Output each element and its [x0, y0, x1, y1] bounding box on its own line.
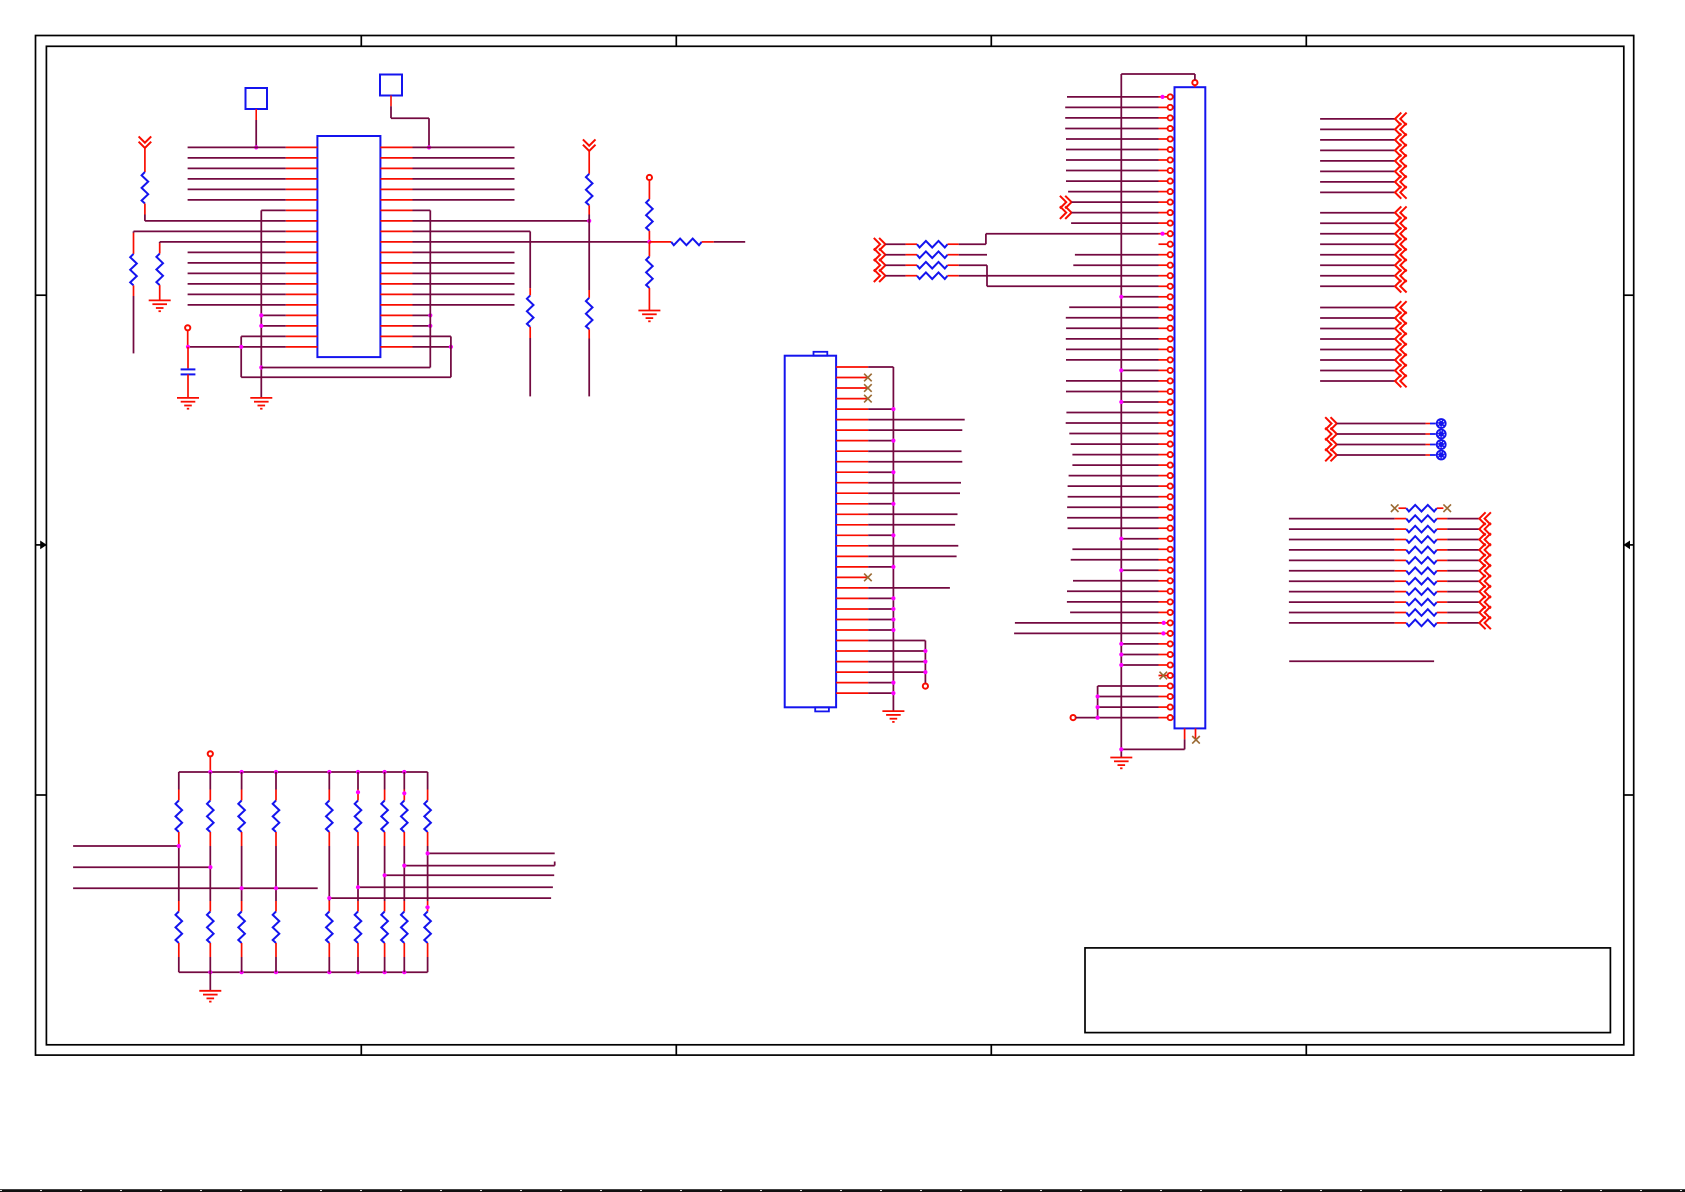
J5 rows50-51 long wires: [1015, 622, 1159, 624]
array right wire 1: [428, 852, 555, 854]
frame zone ticks left: [36, 294, 47, 296]
J5 rows57-58 wires: [1098, 696, 1159, 698]
J4 pins: [836, 366, 868, 368]
resistor R5 upper: [588, 151, 590, 174]
array column 9 resistors: [427, 772, 429, 790]
U1 right wire row7 to R5: [413, 220, 590, 222]
resistor R2: [133, 231, 135, 233]
row18 loop bottom: [241, 376, 451, 378]
power chevron R1: [139, 136, 152, 148]
array terminal circle: [208, 751, 213, 756]
U1 right wires rows0-5: [413, 146, 515, 148]
J5 row15 pin wire: [1075, 254, 1159, 256]
J4 row26 wire to stub bus: [868, 640, 925, 642]
chevron resistor row16: [874, 259, 886, 272]
U1 right wire row18: [413, 335, 451, 337]
next page edge strip: [0, 1189, 1685, 1192]
resistor row X-X: [1391, 504, 1399, 512]
frame zone ticks top: [360, 36, 362, 47]
array column 5 resistors: [328, 772, 330, 790]
U1 left wires rows10-15: [188, 251, 286, 253]
J5 rows56-59 vertical: [1097, 686, 1099, 718]
U1 left wire row9 from R3: [160, 241, 286, 243]
series resistor row 10: [1289, 612, 1395, 614]
series resistor row 6: [1289, 570, 1395, 572]
J4 long wires: [868, 419, 965, 421]
single wire below resistor block: [1289, 660, 1434, 662]
left ground bus vertical: [260, 210, 262, 398]
J5 bus junction rows: [1121, 296, 1158, 298]
ground R6: [638, 310, 660, 312]
series resistor row 3: [1289, 539, 1395, 541]
row16 to row18 vertical: [986, 265, 988, 286]
junction row0 left: [254, 145, 258, 149]
series resistor row 8: [1289, 591, 1395, 593]
IC U1 body: [317, 136, 380, 357]
U1 right wire row6 to bus: [413, 209, 431, 211]
array right wire 4: [358, 886, 553, 888]
row18 loop right vertical: [450, 336, 452, 377]
J5 row56 wire: [1098, 685, 1159, 687]
series resistor row 11: [1289, 622, 1395, 624]
test point wires with chevrons: [1325, 417, 1337, 430]
U1 left wire row18: [241, 335, 286, 337]
array column 2 resistors: [209, 772, 211, 790]
resistor R6 lower: [648, 242, 650, 257]
series resistor row 5: [1289, 559, 1395, 561]
series resistor row 9: [1289, 601, 1395, 603]
J4 circle terminal: [924, 682, 926, 684]
chevron resistor row15: [874, 248, 886, 261]
J4 ground: [882, 710, 904, 712]
connector J4 top tab: [814, 352, 828, 356]
U1 right wire row19: [413, 346, 451, 348]
title block: [1085, 948, 1610, 1033]
ground C1: [177, 397, 199, 399]
J4 bus junction rows: [868, 408, 893, 410]
terminal circle R6: [647, 175, 652, 180]
U1 left pins: [286, 146, 318, 148]
J5 left wires: [1067, 96, 1159, 98]
U1 right wire row8 to R4: [413, 230, 531, 232]
terminal square J2: [246, 88, 268, 109]
ground left bus: [250, 397, 272, 399]
resistor R7 horizontal: [649, 241, 671, 243]
array stray junction col8: [402, 791, 406, 795]
array column 4 resistors: [275, 772, 277, 790]
array stray stub col9: [425, 906, 427, 908]
U1 right pins: [380, 146, 412, 148]
right off-page group 2: [1320, 212, 1395, 214]
U1 right wires rows16-17 to bus: [413, 314, 431, 316]
capacitor C1: [187, 347, 189, 369]
array left wire 2: [73, 866, 210, 868]
resistor R6 upper: [648, 180, 650, 199]
J5 row59 circle terminal: [1071, 715, 1076, 720]
J4 rows27-29 wires: [868, 650, 925, 652]
array top rail junctions: [208, 770, 212, 774]
J5 ground: [1120, 749, 1122, 757]
connector J4 body: [785, 356, 836, 708]
row18 loop left vertical: [240, 336, 242, 377]
U1 left wire row19: [188, 346, 286, 348]
power chevron R5: [583, 139, 596, 151]
right off-page group 1: [1320, 118, 1395, 120]
J5 bottom pin 2 no-connect: [1195, 728, 1197, 739]
ground R3: [149, 299, 171, 301]
page frame inner border: [46, 46, 1623, 1045]
array bottom rail junctions: [208, 970, 212, 974]
array left wire 3: [73, 887, 318, 889]
resistor R4: [529, 231, 531, 288]
array right wire 3: [385, 874, 555, 876]
J5 top circle terminal: [1192, 80, 1197, 85]
array column 6 resistors: [357, 772, 359, 790]
chevron resistor row14: [874, 238, 886, 251]
J5 row16 pin wire: [1073, 264, 1158, 266]
series resistor row 7: [1289, 580, 1395, 582]
array bottom rail: [179, 971, 428, 973]
junction row0 right: [427, 145, 431, 149]
array stray junction col6: [356, 790, 360, 794]
J5 bottom pin 1: [1184, 728, 1186, 739]
right bus vertical row6: [429, 210, 431, 367]
bus bottom horizontal: [261, 367, 430, 369]
U1 left wires rows0-5: [188, 146, 286, 148]
array right wire 2: [404, 865, 554, 867]
connector J4 bottom tab: [815, 707, 829, 711]
array ground: [209, 972, 211, 991]
array left wire 1: [73, 845, 179, 847]
right off-page group 3: [1320, 307, 1395, 309]
frame mid-left arrow: [36, 544, 47, 546]
J5 row13 wire: [986, 233, 1159, 235]
J4 no-connects rows1-3: [864, 374, 872, 382]
U1 left wire row6: [261, 209, 286, 211]
array column 3 resistors: [241, 772, 243, 790]
U1 left wires rows16-17 from bus: [261, 314, 286, 316]
row14 to row13 vertical: [985, 234, 987, 245]
resistor R3: [159, 242, 161, 244]
J5 row18 wire: [987, 285, 1159, 287]
connector J5 body: [1175, 87, 1206, 728]
U1 right wires rows10-15: [413, 251, 515, 253]
frame zone ticks right: [1624, 294, 1634, 296]
U1 left wire row8 from R2: [134, 230, 286, 232]
J4 row0 wire: [868, 366, 893, 368]
J5 bus vertical: [1120, 74, 1122, 749]
terminal square J3: [380, 75, 402, 96]
J4 bus vertical: [892, 367, 894, 711]
array right wire 5: [329, 897, 551, 899]
U1 right wire row9 to R6/R7: [413, 241, 650, 243]
series resistor row 1: [1289, 518, 1395, 520]
array column 7 resistors: [384, 772, 386, 790]
resistor R1: [144, 148, 146, 172]
row19 junction left: [239, 345, 243, 349]
series resistor row 2: [1289, 528, 1395, 530]
array column 8 resistors: [403, 772, 405, 790]
series resistor row 4: [1289, 549, 1395, 551]
wire J2 to row0: [255, 109, 257, 120]
resistor R5 lower: [588, 221, 590, 290]
frame mid-right arrow: [1624, 544, 1634, 546]
array top rail: [179, 771, 428, 773]
frame zone ticks bottom: [360, 1045, 362, 1055]
J5 pin stubs and bubbles: [1159, 96, 1168, 98]
J5 row55 no-connect: [1160, 672, 1168, 680]
U1 left wire row7 from R1: [145, 220, 286, 222]
wire J3 to row0 right: [390, 96, 392, 107]
array column 1 resistors: [178, 772, 180, 790]
terminal circle left: [185, 325, 190, 330]
J5 chevron row11: [1060, 206, 1072, 219]
J5 chevron row10: [1060, 196, 1072, 209]
J4 no-connect row20: [864, 574, 872, 582]
J5 top wire to bus: [1194, 74, 1196, 80]
chevron resistor row17: [874, 269, 886, 282]
